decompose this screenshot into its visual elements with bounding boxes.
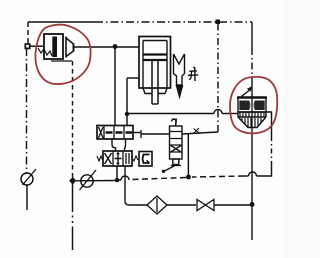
node junction square top — [216, 20, 221, 25]
adjust arrow of throttle — [242, 91, 250, 97]
squiggle break mark — [193, 128, 200, 134]
wire left frame upper dashed — [27, 22, 29, 44]
wire DV2 return port down long — [125, 166, 129, 205]
pump P2 circle mid — [81, 175, 93, 187]
wire left vertical lower solid — [26, 185, 28, 210]
adjust arrow through pump P2 — [80, 170, 97, 190]
wire pilot dashed vertical from check valve — [72, 61, 74, 177]
node junction dot E pump tee — [69, 177, 76, 185]
throttle valve TV1 — [237, 84, 267, 132]
wire sequence drain vertical — [187, 134, 189, 175]
wire pump line below tee — [72, 183, 74, 210]
cylinder C1 body — [139, 37, 171, 105]
wire check valve inlet — [30, 45, 45, 47]
wire horizontal tank line — [76, 180, 117, 182]
wire pilot chain vertical to top — [217, 24, 219, 132]
wire top boundary chain line — [28, 21, 95, 23]
wire rod-side elbow to cylinder — [127, 77, 139, 79]
wire pilot branch to throttle — [222, 113, 238, 115]
adjust arrow through pump P1 — [23, 169, 37, 185]
node port square left — [25, 44, 29, 48]
wire side port dashed segment — [271, 136, 273, 165]
wire left vertical chain — [26, 48, 28, 173]
node junction dot A — [113, 44, 118, 49]
directional valve DV1 upper — [97, 126, 141, 140]
wire right frame vertical chain — [251, 48, 253, 86]
node junction dot F — [250, 202, 255, 207]
label glyph kai — [188, 67, 199, 81]
wire sequence valve left port plugged — [141, 133, 170, 135]
wire rod-side vertical — [126, 78, 128, 125]
directional valve DV2 lower — [103, 151, 132, 166]
pump P1 circle left — [21, 173, 33, 185]
check valve CV1 body — [44, 34, 74, 59]
red annotation circle around throttle — [230, 77, 277, 133]
wire DV2 tank port down — [116, 166, 118, 180]
spring of check valve — [38, 48, 52, 56]
wire right frame vertical solid — [251, 22, 253, 48]
wire sequence valve right port — [182, 132, 218, 134]
wire throttle outlet down — [251, 132, 253, 204]
pilot box with rotary arrow — [139, 152, 152, 167]
wire cap-side vertical to valve — [114, 47, 116, 126]
filter F1 diamond — [147, 196, 167, 214]
node junction dot C — [186, 175, 191, 180]
sequence valve SV1 — [162, 119, 182, 174]
node junction dot D — [115, 178, 120, 183]
spring left of DV2 — [97, 156, 103, 161]
load arrow W — [174, 54, 185, 100]
wire bowtie outlet — [214, 204, 252, 206]
wire hooks under DV1 — [112, 140, 116, 152]
wire hop over vertical chain — [214, 110, 222, 114]
spring squiggle top — [172, 119, 177, 123]
wire hop over throttle drop line — [249, 172, 257, 176]
wire check valve outlet — [74, 46, 140, 48]
shut-off valve bowtie — [197, 200, 214, 211]
wire pilot dashes left of dot — [132, 178, 186, 180]
spring right of DV2 — [132, 156, 138, 161]
red annotation circle around check valve — [35, 25, 90, 85]
wire filter outlet — [167, 204, 196, 206]
wire side port lower corner — [257, 165, 272, 176]
wire check valve bottom shelf — [51, 60, 72, 62]
wire throttle side port — [267, 112, 272, 136]
wire hop over return drop — [121, 176, 129, 180]
wire pilot branch horizontal — [127, 113, 214, 115]
wire tank drop right — [251, 207, 253, 240]
wire pilot line to sequence valve dot — [244, 175, 249, 177]
node junction dot B — [125, 112, 129, 116]
wire tank line left of filter — [129, 204, 147, 206]
